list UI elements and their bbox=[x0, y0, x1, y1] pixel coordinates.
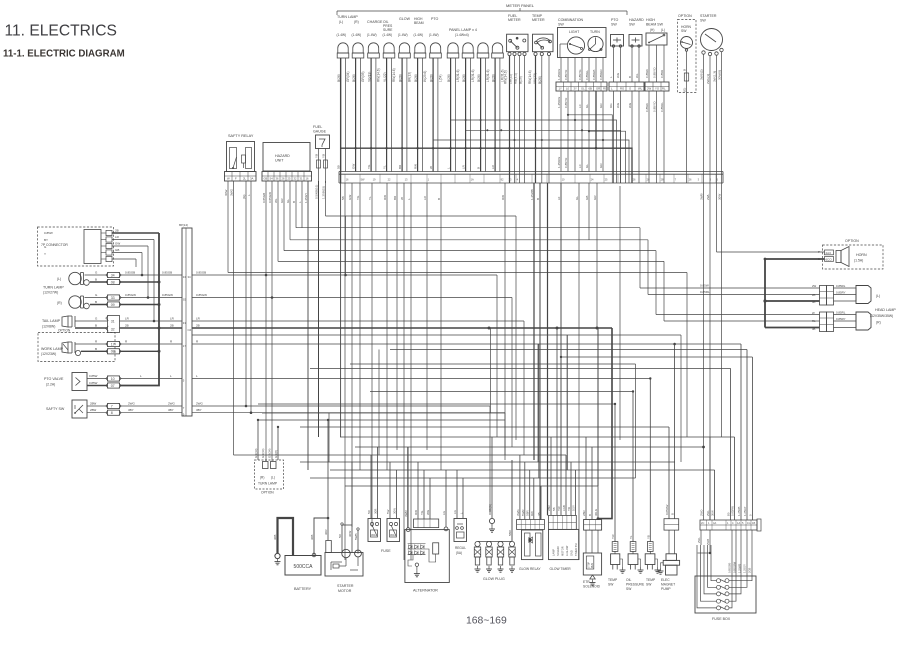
svg-text:GL: GL bbox=[286, 199, 290, 203]
svg-text:HAZARD: HAZARD bbox=[629, 18, 644, 22]
svg-text:BEAM SW: BEAM SW bbox=[646, 23, 664, 27]
svg-text:TURN LAMP: TURN LAMP bbox=[258, 482, 278, 486]
svg-text:HIGH: HIGH bbox=[646, 18, 655, 22]
regulator connector bbox=[453, 470, 467, 555]
svg-text:LG: LG bbox=[453, 509, 457, 514]
svg-text:WG: WG bbox=[616, 72, 620, 78]
svg-text:YB: YB bbox=[314, 154, 318, 158]
PTO switch wires bbox=[609, 47, 621, 183]
svg-text:PANEL LAMP x 4: PANEL LAMP x 4 bbox=[449, 28, 477, 32]
svg-text:B(26): B(26) bbox=[352, 74, 356, 82]
svg-text:5: 5 bbox=[183, 379, 185, 383]
svg-text:RW: RW bbox=[530, 511, 534, 516]
svg-text:7: 7 bbox=[111, 404, 113, 408]
svg-text:L: L bbox=[446, 167, 450, 169]
svg-text:3BY: 3BY bbox=[196, 408, 202, 412]
left strip outgoing wires bbox=[192, 271, 741, 413]
battery BAT bbox=[285, 556, 321, 592]
fuse box feed wires upper bbox=[700, 344, 753, 520]
turn lamp right wires bbox=[85, 293, 183, 307]
svg-text:1A: 1A bbox=[471, 178, 474, 182]
svg-text:RB(9.1): RB(9.1) bbox=[514, 73, 518, 84]
fuse box left loop wires bbox=[697, 530, 717, 608]
starter switch wires bbox=[699, 52, 721, 183]
slow blow fuse 1 bbox=[367, 447, 381, 542]
indicator lamp 10 bbox=[477, 43, 489, 58]
svg-text:L: L bbox=[140, 374, 142, 378]
svg-text:0.85GW: 0.85GW bbox=[268, 192, 272, 203]
lamp 6 wires bbox=[414, 58, 427, 172]
fuel gauge wires bbox=[314, 149, 327, 438]
svg-text:SW: SW bbox=[626, 587, 632, 591]
svg-text:(1.4W): (1.4W) bbox=[367, 33, 377, 37]
svg-text:(L): (L) bbox=[661, 28, 665, 32]
indicator lamp 11 bbox=[492, 43, 504, 58]
glow plugs GP bbox=[474, 541, 515, 581]
svg-text:0.85YG: 0.85YG bbox=[578, 69, 582, 80]
head lamp feed thick wire bbox=[763, 258, 766, 328]
glow timer U-GT bbox=[549, 515, 579, 571]
svg-text:3: 3 bbox=[698, 178, 700, 182]
head lamp right wires bbox=[656, 315, 820, 328]
lamp 4 wires bbox=[383, 58, 396, 172]
svg-text:0.85RL: 0.85RL bbox=[660, 102, 664, 112]
head lamp right bbox=[856, 312, 881, 330]
lamp 8 wires bbox=[447, 58, 460, 172]
svg-text:YB: YB bbox=[646, 535, 650, 539]
svg-text:3Y: 3Y bbox=[574, 87, 578, 91]
svg-text:RL: RL bbox=[662, 87, 666, 91]
svg-text:2WL: 2WL bbox=[706, 194, 710, 201]
svg-text:0.85GB: 0.85GB bbox=[196, 271, 206, 275]
svg-text:33: 33 bbox=[111, 296, 115, 300]
svg-text:2WL: 2WL bbox=[697, 537, 701, 543]
ground return thick wire bbox=[120, 233, 161, 386]
meter panel bracket bbox=[337, 3, 627, 15]
svg-text:B: B bbox=[476, 167, 480, 169]
fuse box body bbox=[695, 576, 756, 621]
above bus wire labels bbox=[336, 164, 495, 169]
svg-text:0.85W: 0.85W bbox=[700, 284, 709, 288]
svg-text:0.85RW: 0.85RW bbox=[731, 506, 735, 516]
svg-text:3WB(2): 3WB(2) bbox=[699, 70, 703, 81]
svg-text:1.25B(15): 1.25B(15) bbox=[321, 186, 325, 199]
combination switch wires upper bbox=[557, 58, 603, 83]
svg-text:08: 08 bbox=[111, 350, 115, 354]
svg-text:7: 7 bbox=[183, 406, 185, 410]
combination switch wires lower bbox=[557, 91, 603, 172]
svg-text:MOTOR: MOTOR bbox=[561, 546, 565, 556]
svg-text:13: 13 bbox=[405, 178, 408, 182]
fuse label bbox=[381, 549, 391, 553]
svg-text:0.85GW: 0.85GW bbox=[125, 293, 136, 297]
svg-text:1.25GY: 1.25GY bbox=[743, 506, 747, 516]
svg-text:0.85RL: 0.85RL bbox=[836, 284, 846, 288]
svg-text:(R): (R) bbox=[354, 20, 359, 24]
lamp 3 wires bbox=[367, 58, 380, 172]
mid net verticals bbox=[488, 275, 613, 520]
svg-text:ALTERNATOR: ALTERNATOR bbox=[413, 589, 438, 593]
svg-text:31: 31 bbox=[300, 176, 303, 180]
svg-text:O4: O4 bbox=[188, 328, 192, 332]
svg-text:YR: YR bbox=[567, 507, 571, 511]
electric magnet pump bbox=[658, 343, 680, 591]
svg-text:ELEC: ELEC bbox=[661, 578, 670, 582]
svg-text:RW(14.6): RW(14.6) bbox=[504, 70, 508, 84]
svg-text:REGUL: REGUL bbox=[455, 546, 466, 550]
lamp wattage labels bbox=[337, 33, 439, 37]
svg-text:0.85YR: 0.85YR bbox=[564, 69, 568, 80]
svg-text:O: O bbox=[629, 87, 632, 91]
svg-text:11. ELECTRICS: 11. ELECTRICS bbox=[5, 23, 117, 40]
title heading bbox=[5, 23, 117, 40]
svg-text:GLOW RELAY: GLOW RELAY bbox=[519, 567, 541, 571]
svg-text:0.5Y: 0.5Y bbox=[572, 505, 576, 511]
svg-text:B(26): B(26) bbox=[414, 74, 418, 82]
svg-text:5BR: 5BR bbox=[508, 529, 512, 536]
svg-text:L(54): L(54) bbox=[438, 75, 442, 82]
svg-text:(L): (L) bbox=[57, 277, 61, 281]
svg-text:B(26): B(26) bbox=[477, 74, 481, 82]
bus lower stubs bbox=[341, 183, 722, 560]
svg-text:(R): (R) bbox=[260, 476, 264, 480]
svg-text:10: 10 bbox=[111, 377, 115, 381]
svg-text:0.85GL: 0.85GL bbox=[585, 70, 589, 80]
turn lamp right bbox=[57, 296, 89, 309]
alternator diodes bbox=[408, 543, 439, 577]
svg-text:PTO: PTO bbox=[611, 18, 619, 22]
svg-text:0.85W: 0.85W bbox=[645, 69, 649, 78]
svg-text:26: 26 bbox=[633, 178, 636, 182]
svg-text:TIMER 5M: TIMER 5M bbox=[574, 544, 578, 556]
option rear turn lamp connector bbox=[254, 419, 284, 495]
svg-text:RW: RW bbox=[501, 195, 505, 200]
svg-text:GB: GB bbox=[585, 196, 589, 200]
head lamp label bbox=[870, 308, 896, 318]
svg-text:SW: SW bbox=[681, 29, 687, 33]
svg-text:2L: 2L bbox=[243, 177, 247, 181]
svg-text:2BR: 2BR bbox=[547, 505, 551, 511]
indicator lamp 2 bbox=[352, 43, 364, 58]
svg-text:METER PANEL: METER PANEL bbox=[506, 3, 535, 8]
svg-text:2W: 2W bbox=[647, 87, 652, 91]
svg-text:OPTION: OPTION bbox=[845, 239, 859, 243]
svg-text:RUN: RUN bbox=[592, 563, 594, 568]
svg-text:GB: GB bbox=[115, 248, 119, 252]
svg-text:LGB: LGB bbox=[562, 505, 566, 511]
svg-text:500CCA: 500CCA bbox=[294, 564, 314, 570]
svg-text:LR(31.6): LR(31.6) bbox=[486, 70, 490, 82]
svg-text:(12V27W): (12V27W) bbox=[43, 291, 58, 295]
svg-text:3BY: 3BY bbox=[168, 408, 174, 412]
svg-text:(1.4W): (1.4W) bbox=[383, 33, 393, 37]
svg-text:SOLENOID: SOLENOID bbox=[583, 585, 601, 589]
svg-text:CHARGE: CHARGE bbox=[367, 20, 383, 24]
svg-text:B: B bbox=[95, 300, 97, 304]
glow plug feed wire bbox=[508, 460, 512, 541]
fuse box connector strip bbox=[700, 519, 761, 531]
svg-text:B: B bbox=[588, 514, 592, 516]
svg-text:1.25WB: 1.25WB bbox=[530, 189, 534, 200]
lamp 7 wires bbox=[429, 58, 442, 172]
svg-text:0.85GB: 0.85GB bbox=[162, 271, 172, 275]
svg-text:BR: BR bbox=[393, 195, 397, 200]
svg-text:B(26): B(26) bbox=[462, 74, 466, 82]
svg-text:YB: YB bbox=[321, 154, 325, 158]
svg-text:22: 22 bbox=[388, 178, 391, 182]
svg-text:COMBINATION: COMBINATION bbox=[558, 18, 583, 22]
svg-text:B: B bbox=[95, 324, 97, 328]
safety switch wires bbox=[87, 402, 182, 416]
svg-text:2WG: 2WG bbox=[196, 402, 204, 406]
svg-text:LW(22): LW(22) bbox=[509, 74, 513, 84]
svg-text:HEAD LAMP: HEAD LAMP bbox=[875, 308, 896, 312]
svg-text:GND: GND bbox=[570, 550, 574, 556]
svg-text:FUSE BOX: FUSE BOX bbox=[712, 617, 731, 621]
svg-text:(1.4W): (1.4W) bbox=[414, 33, 424, 37]
svg-text:0.85GBW: 0.85GBW bbox=[733, 561, 737, 573]
svg-text:0.85W: 0.85W bbox=[89, 381, 98, 385]
svg-text:5B: 5B bbox=[552, 507, 556, 511]
svg-text:1.25RW: 1.25RW bbox=[557, 69, 561, 80]
svg-text:3WG: 3WG bbox=[516, 509, 520, 516]
svg-text:4: 4 bbox=[517, 178, 519, 182]
indicator lamp 1 bbox=[337, 43, 349, 58]
svg-text:STOP: STOP bbox=[589, 561, 591, 568]
svg-text:2WO: 2WO bbox=[700, 509, 704, 516]
engine ground point bbox=[488, 437, 495, 532]
svg-text:SOLE30: SOLE30 bbox=[556, 546, 560, 556]
svg-text:YW: YW bbox=[557, 506, 561, 511]
indicator lamp 8 bbox=[447, 43, 459, 58]
work lamp option box bbox=[38, 329, 115, 362]
fuel meter wires bbox=[504, 56, 525, 183]
svg-text:WG: WG bbox=[616, 102, 620, 108]
combination switch SW-COMB bbox=[558, 18, 607, 58]
svg-text:168~169: 168~169 bbox=[466, 616, 507, 627]
oil pressure switch bbox=[626, 390, 645, 591]
svg-text:5: 5 bbox=[742, 521, 744, 525]
svg-text:1: 1 bbox=[727, 521, 729, 525]
svg-text:PTO VALVE: PTO VALVE bbox=[44, 377, 64, 381]
svg-text:2B: 2B bbox=[125, 324, 129, 328]
svg-text:(L): (L) bbox=[271, 476, 275, 480]
svg-text:F: F bbox=[235, 177, 237, 181]
svg-text:0.85RY: 0.85RY bbox=[836, 291, 846, 295]
svg-text:PTO: PTO bbox=[431, 17, 439, 21]
svg-text:SW: SW bbox=[608, 583, 614, 587]
svg-text:B(26): B(26) bbox=[429, 74, 433, 82]
svg-text:30B: 30B bbox=[310, 535, 314, 540]
svg-text:RW: RW bbox=[414, 510, 418, 515]
fuel meter U-FM bbox=[507, 14, 528, 56]
svg-text:GW: GW bbox=[348, 195, 352, 200]
svg-text:L: L bbox=[170, 374, 172, 378]
svg-text:GR: GR bbox=[599, 163, 603, 168]
svg-text:32: 32 bbox=[294, 176, 297, 180]
svg-text:0.85GR: 0.85GR bbox=[599, 69, 603, 80]
staircase verticals bbox=[326, 186, 688, 440]
svg-text:2WL: 2WL bbox=[706, 510, 710, 516]
svg-text:08: 08 bbox=[111, 280, 115, 284]
svg-text:3WB: 3WB bbox=[699, 193, 703, 200]
svg-text:FUEL: FUEL bbox=[313, 125, 322, 129]
svg-text:4A: 4A bbox=[713, 521, 716, 525]
svg-text:(H): (H) bbox=[650, 28, 654, 32]
svg-text:3WG: 3WG bbox=[230, 188, 234, 196]
svg-text:LG: LG bbox=[442, 510, 446, 515]
svg-text:OIL: OIL bbox=[626, 578, 631, 582]
svg-text:0.85RY: 0.85RY bbox=[836, 317, 846, 321]
temp switch bbox=[608, 403, 626, 587]
horn speaker symbol bbox=[836, 247, 849, 267]
svg-text:R: R bbox=[125, 340, 128, 344]
svg-text:2WG: 2WG bbox=[168, 402, 176, 406]
svg-text:GR(34): GR(34) bbox=[346, 72, 350, 82]
svg-text:TURN: TURN bbox=[590, 30, 600, 34]
svg-text:GR(34): GR(34) bbox=[261, 448, 265, 458]
svg-text:5W: 5W bbox=[386, 509, 390, 514]
svg-text:2WG: 2WG bbox=[128, 402, 136, 406]
high beam switch wires bbox=[645, 45, 664, 183]
svg-text:0.85W: 0.85W bbox=[44, 231, 53, 235]
svg-text:2C: 2C bbox=[701, 521, 704, 525]
svg-text:BEAM: BEAM bbox=[414, 21, 424, 25]
starter switch SW-ST bbox=[700, 14, 723, 56]
svg-text:YW: YW bbox=[611, 534, 615, 539]
meter panel lamps group labels bbox=[337, 15, 477, 37]
svg-text:GL: GL bbox=[581, 87, 585, 91]
glow timer wires bbox=[547, 183, 576, 515]
svg-text:L: L bbox=[196, 374, 198, 378]
temp switch 2 bbox=[645, 377, 660, 586]
PTO valve bbox=[44, 373, 87, 391]
svg-text:L: L bbox=[247, 194, 251, 196]
svg-text:0: 0 bbox=[748, 514, 752, 516]
svg-text:19: 19 bbox=[373, 178, 376, 182]
svg-text:B(26): B(26) bbox=[447, 74, 451, 82]
lamp 9 wires bbox=[462, 58, 475, 172]
svg-text:B: B bbox=[628, 76, 632, 78]
alternator wires bbox=[404, 447, 446, 528]
turn lamp label bbox=[43, 286, 64, 295]
indicator lamp 6 bbox=[414, 43, 426, 58]
svg-text:17: 17 bbox=[111, 342, 115, 346]
svg-text:GL: GL bbox=[575, 196, 579, 200]
svg-text:0.85RW: 0.85RW bbox=[665, 504, 669, 515]
svg-text:0.85YR: 0.85YR bbox=[564, 157, 568, 168]
svg-text:YL: YL bbox=[629, 535, 633, 539]
svg-text:5WB: 5WB bbox=[354, 533, 358, 540]
svg-text:MAGNET: MAGNET bbox=[661, 583, 675, 587]
svg-text:BATTERY: BATTERY bbox=[294, 587, 312, 591]
ground collector dark wire bbox=[341, 58, 632, 437]
svg-text:RW(14.6): RW(14.6) bbox=[392, 68, 396, 82]
svg-text:GB: GB bbox=[264, 176, 268, 180]
svg-text:B(26): B(26) bbox=[538, 76, 542, 84]
svg-text:SW: SW bbox=[611, 23, 617, 27]
svg-text:26: 26 bbox=[282, 176, 285, 180]
svg-text:G: G bbox=[95, 317, 98, 321]
svg-text:1.25RB: 1.25RB bbox=[737, 507, 741, 516]
svg-text:5R: 5R bbox=[338, 533, 342, 538]
svg-text:TURN LAMP: TURN LAMP bbox=[337, 15, 358, 19]
svg-text:2BR: 2BR bbox=[582, 510, 586, 516]
svg-text:16: 16 bbox=[306, 176, 309, 180]
svg-text:(G): (G) bbox=[683, 88, 687, 92]
svg-text:B: B bbox=[437, 198, 441, 200]
svg-text:SW: SW bbox=[558, 23, 564, 27]
svg-text:GR(8): GR(8) bbox=[274, 450, 278, 458]
svg-text:3B(G): 3B(G) bbox=[488, 504, 492, 512]
svg-text:RG: RG bbox=[603, 87, 607, 91]
lamp 10 wires bbox=[477, 58, 490, 172]
staircase feeder wires bbox=[228, 216, 687, 273]
safety relay RY-S bbox=[227, 134, 255, 172]
svg-text:WORK LAMP: WORK LAMP bbox=[41, 347, 64, 351]
page number bbox=[466, 616, 507, 627]
svg-text:1: 1 bbox=[428, 178, 430, 182]
option 7P connector bbox=[38, 227, 114, 266]
svg-text:FUSE: FUSE bbox=[381, 549, 391, 553]
head lamp right connector bbox=[812, 311, 856, 332]
svg-text:LR: LR bbox=[125, 317, 130, 321]
combination switch connector bbox=[556, 82, 607, 91]
svg-text:RG: RG bbox=[620, 87, 624, 91]
svg-text:BY: BY bbox=[44, 238, 48, 242]
svg-text:ETR: ETR bbox=[583, 580, 590, 584]
svg-text:GAUGE: GAUGE bbox=[313, 130, 327, 134]
svg-text:B: B bbox=[292, 201, 296, 203]
svg-text:W: W bbox=[429, 166, 433, 169]
tail lamp wires bbox=[75, 316, 182, 333]
svg-text:YG(19): YG(19) bbox=[367, 72, 371, 82]
svg-text:G: G bbox=[95, 293, 98, 297]
svg-text:5W: 5W bbox=[361, 178, 365, 182]
svg-text:LR: LR bbox=[461, 164, 465, 169]
svg-text:3B: 3B bbox=[537, 512, 541, 516]
svg-text:8P(14): 8P(14) bbox=[179, 223, 188, 227]
svg-text:(1.4W): (1.4W) bbox=[352, 33, 362, 37]
svg-text:5B: 5B bbox=[341, 196, 345, 200]
hazard unit connector bbox=[262, 172, 312, 182]
svg-text:0.85GB: 0.85GB bbox=[592, 70, 596, 81]
svg-text:6B: 6B bbox=[589, 87, 593, 91]
svg-text:07: 07 bbox=[111, 384, 115, 388]
svg-text:TAIL LAMP: TAIL LAMP bbox=[42, 319, 61, 323]
svg-text:34: 34 bbox=[111, 273, 115, 277]
svg-text:2B: 2B bbox=[812, 293, 816, 297]
svg-text:25: 25 bbox=[605, 178, 608, 182]
svg-text:SAFTY SW: SAFTY SW bbox=[46, 407, 65, 411]
svg-text:LR(31.6): LR(31.6) bbox=[456, 70, 460, 82]
svg-text:SW: SW bbox=[700, 19, 706, 23]
svg-text:B(26): B(26) bbox=[519, 76, 523, 84]
combination jog wires bbox=[433, 114, 629, 183]
lower mesh verticals bbox=[329, 328, 681, 486]
svg-text:0.85GB0: 0.85GB0 bbox=[728, 562, 732, 573]
svg-text:(1.4W): (1.4W) bbox=[337, 33, 347, 37]
svg-text:1.25WB: 1.25WB bbox=[738, 564, 742, 573]
svg-text:METER: METER bbox=[532, 18, 545, 22]
left harness vertical strip bbox=[179, 223, 192, 417]
svg-text:0.85YO: 0.85YO bbox=[652, 67, 656, 78]
svg-text:L0: L0 bbox=[578, 104, 582, 108]
option horn box bbox=[823, 239, 884, 269]
svg-text:YG: YG bbox=[356, 195, 360, 200]
svg-text:RW(14.6): RW(14.6) bbox=[528, 70, 532, 84]
svg-text:0.85GB: 0.85GB bbox=[125, 271, 135, 275]
